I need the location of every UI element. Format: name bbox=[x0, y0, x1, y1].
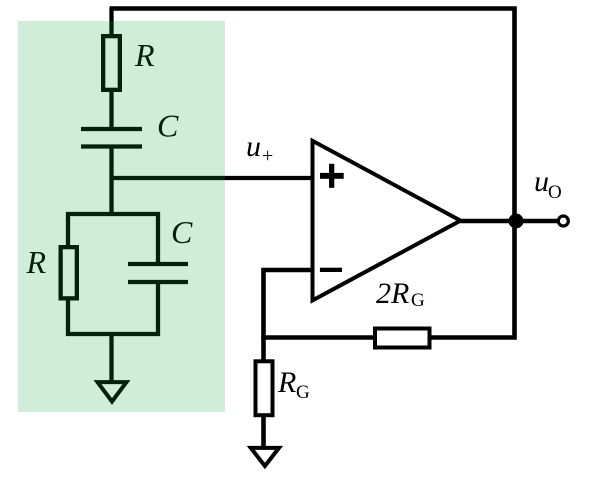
svg-text:O: O bbox=[548, 182, 562, 203]
svg-text:2R: 2R bbox=[376, 277, 409, 310]
svg-text:G: G bbox=[296, 382, 310, 403]
svg-text:u: u bbox=[246, 130, 261, 163]
svg-text:R: R bbox=[277, 366, 296, 399]
svg-text:+: + bbox=[262, 145, 273, 167]
svg-text:G: G bbox=[411, 290, 425, 311]
svg-text:u: u bbox=[534, 165, 549, 198]
